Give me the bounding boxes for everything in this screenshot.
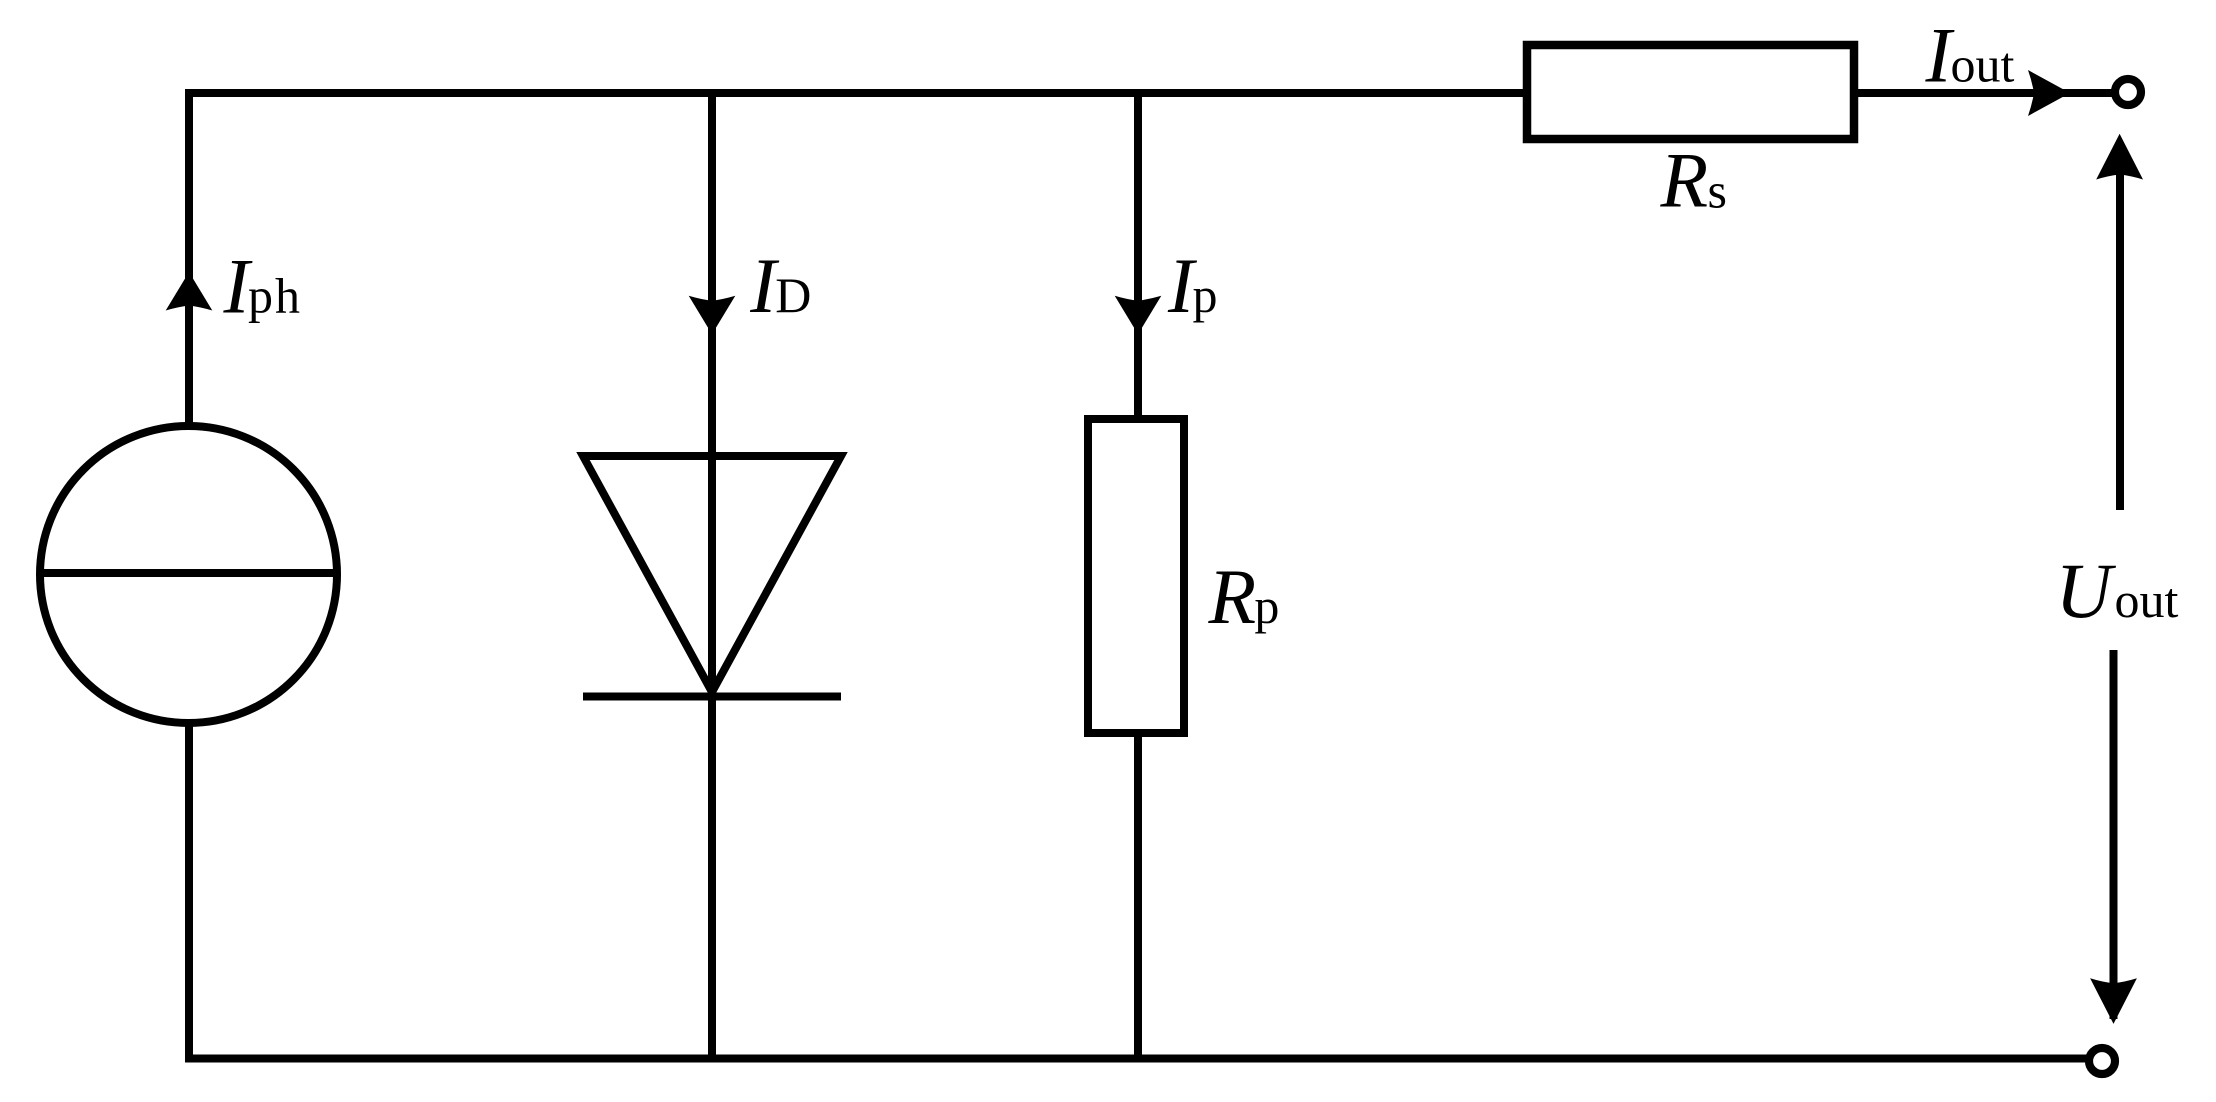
svg-text:D: D	[775, 267, 811, 323]
svg-text:R: R	[1208, 553, 1257, 640]
svg-text:p: p	[1254, 578, 1279, 634]
svg-text:out: out	[1951, 37, 2015, 93]
svg-text:out: out	[2115, 572, 2179, 628]
svg-text:ph: ph	[248, 268, 302, 324]
svg-text:p: p	[1193, 267, 1218, 323]
svg-text:s: s	[1708, 163, 1727, 219]
svg-text:U: U	[2056, 547, 2117, 634]
svg-text:R: R	[1660, 137, 1709, 224]
